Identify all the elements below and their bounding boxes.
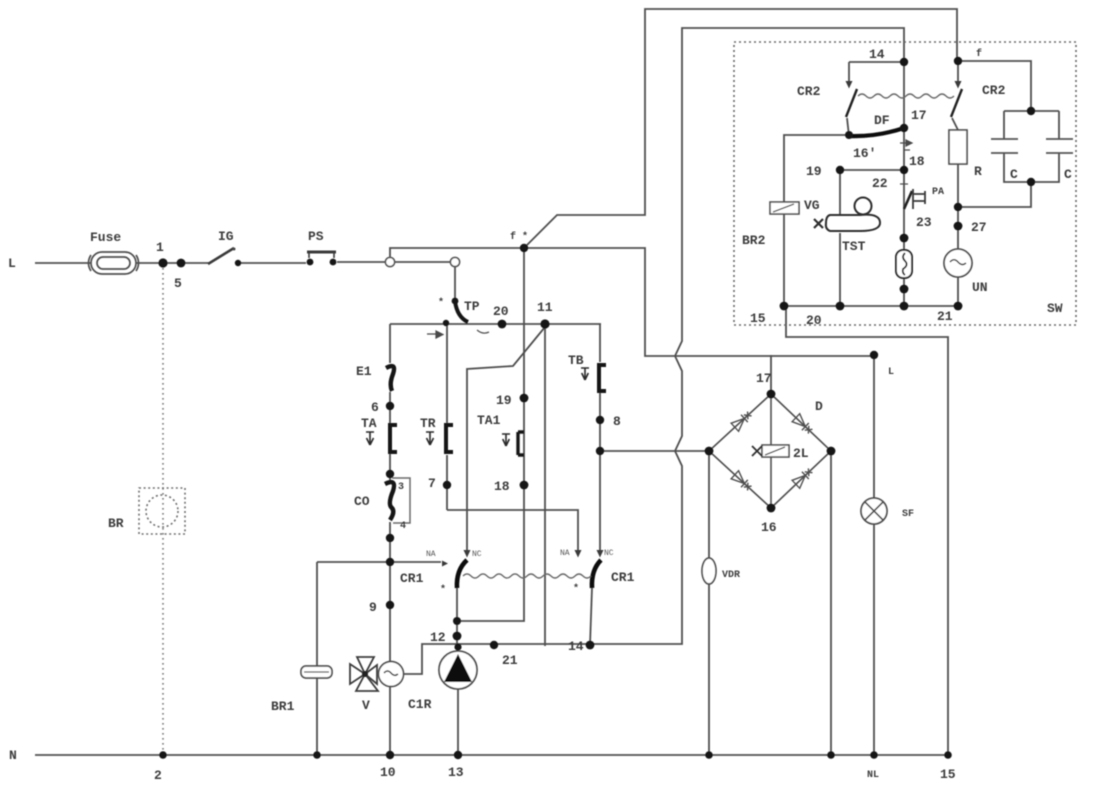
svg-text:f: f: [976, 48, 982, 60]
terminal circle b: [450, 257, 459, 266]
node 21: [490, 641, 498, 649]
node SW 14: [900, 58, 908, 66]
wire SW 14 feed: [849, 62, 904, 128]
node 18: [520, 481, 529, 490]
svg-text:C: C: [1064, 167, 1072, 182]
svg-text:L: L: [888, 367, 894, 378]
node 19: [520, 394, 529, 403]
svg-text:CR1: CR1: [400, 571, 424, 586]
igniter TH: [896, 250, 912, 278]
wire SW 15 to right column: [786, 306, 948, 755]
svg-text:15: 15: [750, 311, 766, 326]
svg-text:17: 17: [756, 371, 772, 386]
svg-text:*: *: [573, 583, 579, 595]
node BR1 rail: [313, 751, 321, 759]
wire node 8 junction to bridge: [600, 450, 709, 452]
wire VDR column: [708, 451, 710, 755]
node 20: [498, 320, 507, 329]
svg-text:CO: CO: [354, 494, 370, 509]
svg-text:5: 5: [174, 276, 182, 291]
node NL: [870, 751, 878, 759]
switch PS: [307, 251, 336, 254]
svg-text:16: 16: [761, 520, 777, 535]
svg-text:BR: BR: [108, 516, 124, 531]
relay contact CR1 left blade: [457, 560, 467, 588]
pump C1R: [439, 651, 477, 689]
node PS left: [307, 259, 314, 266]
wire UN to SW rail: [957, 277, 959, 306]
node 13: [454, 751, 462, 759]
wire CR1 left blade to node 12: [456, 588, 458, 652]
svg-text:*: *: [440, 584, 446, 596]
wire TA1 node 19 to 18: [457, 398, 524, 621]
svg-text:SF: SF: [902, 509, 914, 520]
wire TB column: [599, 324, 601, 553]
relay coil 2L: [762, 445, 789, 457]
wire E1 column: [389, 324, 391, 755]
svg-text:18: 18: [909, 154, 925, 169]
svg-text:12: 12: [430, 630, 446, 645]
capacitor C left plates: [991, 139, 1018, 153]
mechanical link CR2 wavy: [858, 94, 954, 98]
svg-text:19: 19: [806, 164, 822, 179]
svg-text:8: 8: [613, 414, 621, 429]
wire N rail: [35, 754, 949, 756]
svg-text:19: 19: [496, 393, 512, 408]
diode bottom-right: [792, 467, 814, 489]
svg-text:R: R: [974, 164, 982, 179]
motor V circle: [379, 662, 404, 687]
node 5: [177, 259, 186, 268]
node bridge top 17: [767, 390, 776, 399]
dotted neutral link node 1 to node 2: [162, 268, 164, 750]
svg-text:TB: TB: [568, 353, 584, 368]
wire terminal to TP pivot: [454, 267, 456, 299]
wire pump to rail: [457, 689, 459, 755]
node cap top: [1027, 107, 1035, 115]
wire BR1 branch: [317, 561, 390, 563]
svg-text:22: 22: [872, 176, 888, 191]
svg-text:BR1: BR1: [271, 699, 295, 714]
wire bridge right column: [830, 451, 832, 755]
wire junction f down TA1 column: [523, 248, 525, 398]
wire CR1 NA arrow branch: [390, 561, 441, 563]
svg-text:27: 27: [971, 220, 987, 235]
svg-text:CR2: CR2: [982, 83, 1006, 98]
wire R to node 27: [957, 164, 959, 250]
wire node 17 to 22: [903, 128, 905, 170]
wire node 19 to 22: [840, 169, 904, 171]
valve V fan symbol: [350, 657, 378, 691]
junction dots main: [158, 57, 1035, 759]
node 15 rail: [944, 751, 952, 759]
diode top-left: [731, 410, 814, 493]
node SW f: [954, 57, 962, 65]
svg-text:18: 18: [494, 479, 510, 494]
wire PS to terminal: [337, 261, 385, 263]
node TP pivot: [452, 298, 459, 305]
relay contact CR1 right blade: [592, 560, 601, 588]
svg-text:16': 16': [853, 146, 876, 161]
wire L input: [35, 262, 91, 264]
svg-text:IG: IG: [218, 229, 234, 244]
wire node 11 riser down to 21: [544, 327, 546, 646]
svg-text:L: L: [8, 256, 16, 271]
wire PA column: [903, 170, 905, 306]
svg-text:23: 23: [916, 215, 932, 230]
svg-text:9: 9: [369, 600, 377, 615]
node L lamp: [870, 351, 878, 359]
node BR1 junction: [386, 558, 394, 566]
wire CR2 right to R: [952, 118, 958, 130]
defrost switch DF blade: [849, 128, 904, 136]
svg-text:PS: PS: [308, 229, 324, 244]
node SW igniter bottom: [900, 285, 909, 294]
node VDR rail: [705, 751, 713, 759]
node 6: [386, 402, 394, 410]
varistor VDR: [702, 558, 716, 584]
thermal sensor TST: [814, 198, 880, 232]
svg-text:TST: TST: [842, 239, 866, 254]
SW dashed enclosure: [734, 42, 1076, 325]
wire inner hook from SW node 14 down to node 14: [589, 28, 904, 644]
svg-text:3: 3: [398, 482, 404, 493]
svg-text:VG: VG: [804, 198, 820, 213]
node SW 16: [845, 131, 853, 139]
wire bridge top riser: [770, 355, 772, 392]
svg-text:CR2: CR2: [797, 84, 821, 99]
wire node 7 to CR1 right contact: [447, 510, 578, 553]
node 27: [954, 222, 963, 231]
node SW 23: [900, 234, 909, 243]
thermal cutout CO blade and bracket: [392, 478, 410, 523]
relay contact CR2 left blade: [846, 89, 857, 117]
wire CR2 left contact: [848, 62, 850, 81]
wire net f riser: [390, 248, 524, 258]
node 12: [453, 632, 462, 641]
resistor R: [949, 130, 967, 164]
svg-text:DF: DF: [874, 113, 890, 128]
svg-text:V: V: [362, 698, 370, 713]
node cap bottom: [1027, 178, 1035, 186]
wire BR2 VG column: [784, 135, 849, 306]
wire capacitor branch bottom: [958, 153, 1059, 207]
node IG contact: [235, 260, 241, 266]
svg-text:VDR: VDR: [722, 570, 740, 581]
node SW rail 15: [780, 302, 789, 311]
node bridge rail: [827, 751, 835, 759]
svg-text:C1R: C1R: [408, 697, 432, 712]
diode top-right: [792, 414, 814, 436]
svg-text:D: D: [815, 399, 823, 414]
interference suppressor BR dotted box: [139, 488, 185, 534]
svg-text:20: 20: [493, 304, 509, 319]
wire f to capacitors: [958, 61, 1031, 111]
wire CR2 left to node 16: [847, 118, 849, 136]
svg-text:NC: NC: [472, 550, 482, 559]
thermostat TA contact: [390, 425, 397, 452]
node 1: [158, 258, 167, 267]
heater E1 blade: [386, 366, 394, 391]
pressure actuator PA: [904, 191, 912, 209]
node SW 17: [900, 124, 908, 132]
node bridge bottom 16: [767, 504, 776, 513]
svg-text:10: 10: [380, 765, 396, 780]
node CO bottom: [386, 534, 394, 542]
svg-text:*: *: [438, 297, 444, 309]
svg-text:15: 15: [940, 767, 956, 782]
svg-text:NL: NL: [867, 770, 879, 781]
switch TP blade: [455, 301, 468, 322]
svg-text:4: 4: [400, 521, 406, 532]
wire TP row 20 11: [390, 323, 601, 325]
svg-text:13: 13: [448, 765, 464, 780]
node TP NA: [443, 320, 449, 326]
wire SW bottom rail: [784, 305, 958, 307]
node SW 22: [900, 166, 908, 174]
node SW 19: [836, 166, 844, 174]
svg-text:17: 17: [911, 108, 927, 123]
svg-text:NA: NA: [426, 550, 436, 559]
node 9: [386, 601, 394, 609]
contact mark node 18: [900, 140, 912, 150]
svg-text:f *: f *: [510, 231, 528, 243]
node 8 junction: [596, 447, 604, 455]
node pump top: [454, 643, 461, 650]
svg-text:14: 14: [568, 639, 584, 654]
wire BR1 column: [316, 562, 318, 755]
svg-text:N: N: [9, 748, 17, 763]
capacitor C right plates: [1046, 139, 1073, 153]
motor UN: [944, 249, 972, 277]
node PS right: [330, 259, 337, 266]
svg-text:20: 20: [806, 313, 822, 328]
svg-text:1: 1: [156, 240, 164, 255]
wire node 14 line to node 21 and V: [404, 644, 589, 674]
node 2: [159, 751, 167, 759]
node 11: [540, 319, 549, 328]
svg-text:SW: SW: [1047, 301, 1063, 316]
relay coil VG: [770, 202, 799, 214]
svg-text:CR1: CR1: [611, 570, 635, 585]
wire f to CR2 right: [957, 61, 959, 81]
node SW rail 20: [836, 302, 845, 311]
wire IG to PS: [240, 262, 306, 264]
wire TR column: [446, 323, 448, 510]
wire terminal to terminal: [395, 261, 450, 263]
wire TST column: [839, 170, 841, 306]
svg-text:7: 7: [428, 476, 436, 491]
svg-text:2: 2: [154, 768, 162, 783]
svg-text:Fuse: Fuse: [90, 230, 121, 245]
svg-text:14: 14: [869, 47, 885, 62]
thermostat TB contact: [599, 365, 606, 391]
node bridge right: [827, 447, 836, 456]
svg-text:11: 11: [537, 300, 553, 315]
svg-text:BR2: BR2: [742, 233, 766, 248]
svg-text:21: 21: [502, 653, 518, 668]
terminal circle a: [385, 257, 394, 266]
diode bridge D diamond: [709, 394, 831, 508]
thermostat TA1 contact: [518, 432, 524, 455]
wire node 11 diagonal to CR1: [467, 327, 545, 551]
relay coil BR1: [301, 666, 332, 678]
svg-text:TA1: TA1: [477, 413, 501, 428]
node 14: [586, 641, 595, 650]
node 7: [443, 481, 451, 489]
wire CR1 right blade to node 14: [590, 588, 592, 645]
node bridge left: [705, 447, 714, 456]
node SW rail a: [900, 302, 909, 311]
svg-text:NC: NC: [604, 549, 614, 558]
svg-text:C: C: [1010, 167, 1018, 182]
node TA top: [386, 470, 394, 478]
svg-text:TP: TP: [464, 299, 480, 314]
wire node f to corner 645: [524, 248, 874, 356]
node 12 upper: [453, 617, 461, 625]
svg-text:TA: TA: [361, 416, 377, 431]
node R bottom: [954, 203, 962, 211]
fuse Fuse: [88, 252, 138, 274]
mechanical link CR1 wavy: [463, 574, 591, 578]
svg-text:TR: TR: [420, 416, 436, 431]
node SW rail 21: [954, 302, 963, 311]
relay contact CR2 right blade: [951, 89, 962, 117]
svg-text:NA: NA: [560, 549, 570, 558]
thermostat TR contact: [446, 425, 453, 452]
signal lamp SF: [861, 498, 887, 524]
svg-text:UN: UN: [972, 280, 988, 295]
diode bottom-left: [731, 471, 753, 493]
svg-text:6: 6: [371, 400, 379, 415]
wire capacitor branch top: [1004, 111, 1059, 139]
svg-text:2L: 2L: [793, 446, 809, 461]
svg-text:PA: PA: [932, 187, 944, 198]
node 10: [386, 751, 394, 759]
node 8: [596, 416, 604, 424]
wire lamp column: [873, 355, 875, 755]
wire node f diagonal to outer hook: [524, 9, 957, 248]
svg-text:E1: E1: [356, 364, 372, 379]
wire fuse to node 1: [136, 262, 209, 264]
svg-text:21: 21: [937, 309, 953, 324]
node f junction: [520, 244, 528, 252]
switch IG blade: [208, 248, 234, 264]
